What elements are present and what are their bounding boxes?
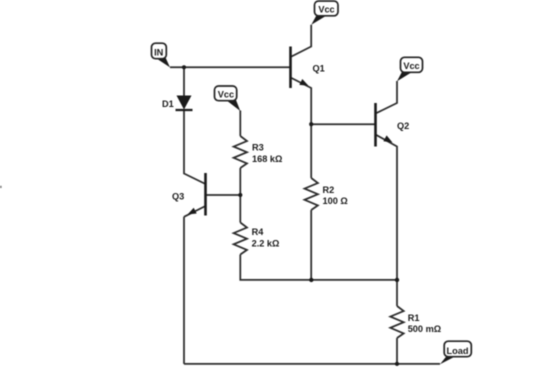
svg-text:Q3: Q3 xyxy=(172,191,184,201)
svg-text:R2: R2 xyxy=(323,185,335,195)
svg-text:168 kΩ: 168 kΩ xyxy=(252,154,282,164)
svg-text:Vcc: Vcc xyxy=(218,90,234,100)
svg-text:Vcc: Vcc xyxy=(403,61,419,71)
svg-text:D1: D1 xyxy=(162,99,174,109)
svg-text:2.2 kΩ: 2.2 kΩ xyxy=(252,239,280,249)
svg-text:Q2: Q2 xyxy=(397,121,409,131)
svg-text:R1: R1 xyxy=(408,313,420,323)
svg-text:IN: IN xyxy=(154,47,164,57)
svg-text:100 Ω: 100 Ω xyxy=(323,196,348,206)
svg-text:R3: R3 xyxy=(252,143,264,153)
svg-text:Q1: Q1 xyxy=(313,63,325,73)
svg-text:Load: Load xyxy=(447,346,469,356)
svg-text:R4: R4 xyxy=(252,227,265,237)
svg-text:500 mΩ: 500 mΩ xyxy=(408,324,441,334)
svg-text:Vcc: Vcc xyxy=(318,5,334,15)
